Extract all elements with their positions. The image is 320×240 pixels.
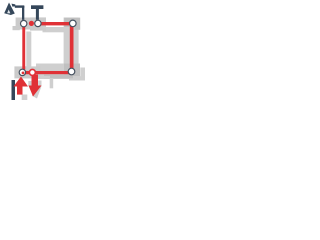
selection band along right wire [64,18,79,78]
selection handle (bottom-left terminal C) [14,66,30,78]
shadow of down-arrow head [32,86,42,98]
wire (red) bottom side [35,71,69,74]
terminal A (white circle, top-left of meter) [21,20,27,26]
terminal B (white circle, top-right of meter) [35,20,41,26]
shadow under meter handle (left piece) [13,26,20,30]
selection band along bottom wire [36,64,80,80]
selection handle (node top-right) [64,18,80,30]
wire (red) left side [22,26,25,70]
wire (navy) from cursor: horizontal run [15,5,24,7]
cursor icon (navy pointer, top-left) [4,3,15,16]
selection handle (bottom terminal D) [24,66,40,78]
navy bar (bottom-left) [12,80,16,100]
selection handle (top-left meter terminal A) [16,18,32,30]
selection handle (top meter terminal B) [30,17,46,29]
shadow of left wire [26,32,31,71]
terminal C (white circle with red centre, bottom-left) [19,69,25,75]
node top-right (white circle) [70,20,77,27]
shadow of down-arrow shaft [38,81,41,87]
component T (navy bar) [31,5,43,9]
selection handle (node bottom-right) [64,64,80,77]
down arrow (red) [32,75,39,87]
shadow of top wire [43,27,75,32]
wire (red) top side [41,22,71,25]
shadow (floating, right of down arrow) [50,78,54,88]
wire (red) link between bottom terminals [26,71,34,74]
wire (red) right side [70,26,74,70]
wire (navy) bend down to terminal A [22,6,24,20]
shadow of up-arrow shaft [22,95,28,101]
shadow under meter handle (right piece) [30,28,46,31]
wire (navy) stem from T-bar down to terminal B [36,9,39,20]
shadow of up-arrow head edge [28,81,31,86]
shadow of bottom wire [44,75,73,79]
terminal D (red ring, bottom) [29,69,35,75]
junction dot (red) between top meter terminals [29,21,34,26]
node bottom-right (white circle) [68,68,75,75]
shadow of bottom-right node square [80,68,85,81]
up arrow (red) [14,77,29,87]
